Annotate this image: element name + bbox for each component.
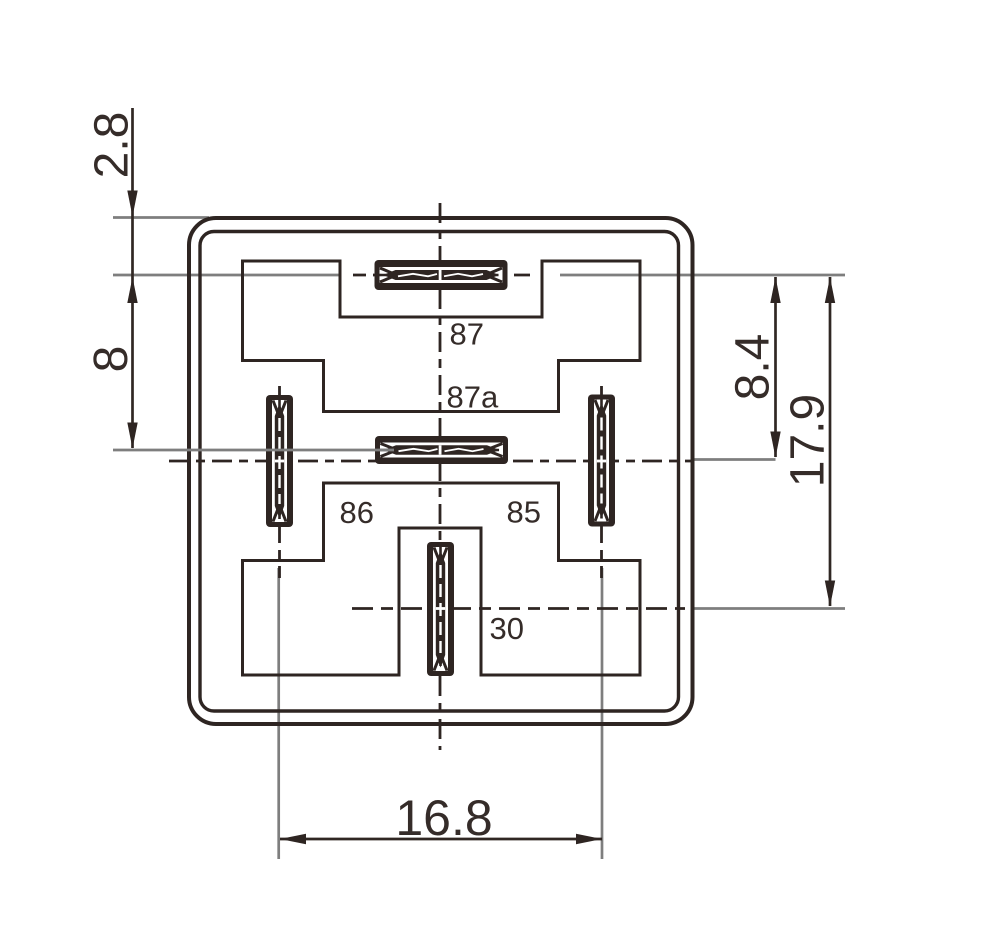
svg-text:8.4: 8.4 <box>727 334 780 401</box>
svg-text:85: 85 <box>507 495 541 530</box>
svg-text:16.8: 16.8 <box>395 790 492 846</box>
svg-text:30: 30 <box>490 611 524 646</box>
svg-text:2.8: 2.8 <box>86 112 139 179</box>
svg-text:87a: 87a <box>447 380 499 415</box>
svg-text:17.9: 17.9 <box>782 394 835 487</box>
svg-text:87: 87 <box>450 317 484 352</box>
svg-text:86: 86 <box>340 495 374 530</box>
svg-text:8: 8 <box>85 346 138 373</box>
